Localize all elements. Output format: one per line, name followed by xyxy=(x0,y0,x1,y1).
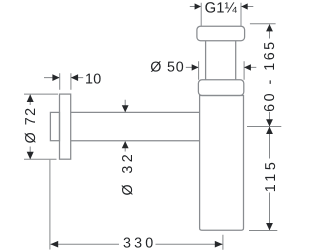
svg-text:115: 115 xyxy=(263,159,279,193)
svg-text:Ø 32: Ø 32 xyxy=(120,151,136,196)
svg-text:60 - 165: 60 - 165 xyxy=(262,39,278,111)
svg-text:Ø 50: Ø 50 xyxy=(150,60,184,76)
svg-text:330: 330 xyxy=(123,235,156,250)
svg-text:G1¼: G1¼ xyxy=(205,1,238,17)
svg-text:Ø 72: Ø 72 xyxy=(23,106,39,143)
svg-text:10: 10 xyxy=(85,72,102,88)
